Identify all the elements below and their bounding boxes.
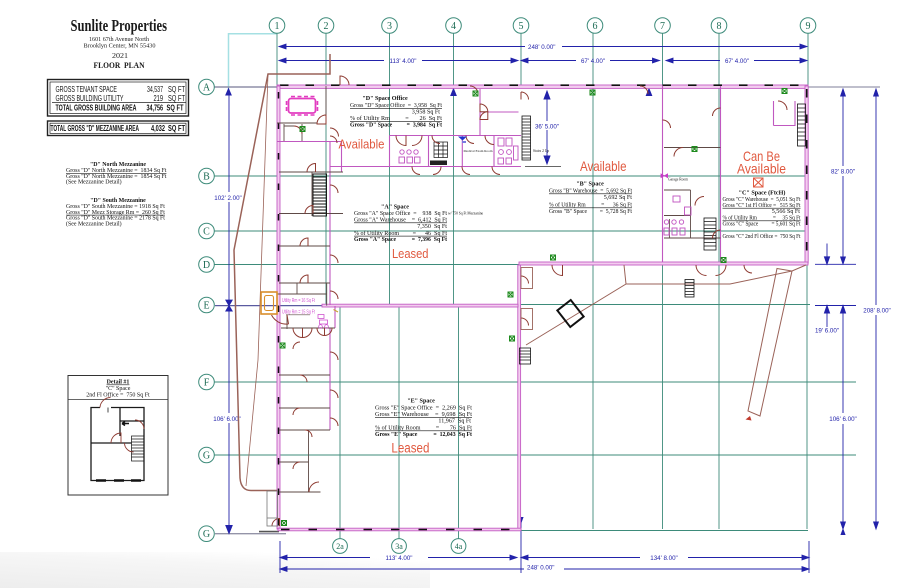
svg-text:2021: 2021: [112, 53, 128, 60]
svg-text:67' 4.00": 67' 4.00": [581, 58, 605, 65]
marker n3: [782, 89, 787, 94]
marker w2: [300, 127, 305, 132]
svg-text:F: F: [204, 377, 210, 388]
doors corridor west: [663, 120, 671, 128]
svg-text:(See Mezzanine Detail): (See Mezzanine Detail): [66, 220, 122, 227]
detail door arcs: [100, 398, 144, 453]
e-space partitions: [277, 283, 335, 492]
extension line col5 bottom: [520, 518, 522, 573]
vestibule room: [284, 124, 302, 141]
utility room bump: [261, 292, 277, 314]
yellow tick: [334, 310, 339, 313]
svg-text:G: G: [203, 529, 210, 540]
door b nw: [521, 92, 529, 100]
svg-text:5,566 Sq Ft: 5,566 Sq Ft: [772, 209, 801, 215]
dim 248 bottom: [280, 563, 809, 572]
column line 4: [453, 33, 455, 306]
detail black arrow: [122, 422, 129, 426]
svg-text:Utility Rm = 15 Sq Ft: Utility Rm = 15 Sq Ft: [282, 310, 315, 316]
svg-text:D: D: [203, 260, 210, 271]
svg-text:Stairs 2 Up: Stairs 2 Up: [533, 149, 549, 153]
svg-text:82' 8.00": 82' 8.00": [831, 169, 855, 176]
svg-text:Brooklyn Center, MN 55430: Brooklyn Center, MN 55430: [84, 43, 157, 50]
A space text: [354, 205, 484, 244]
office partition 283: [279, 282, 330, 284]
svg-text:Leased: Leased: [392, 247, 429, 261]
svg-text:2: 2: [324, 21, 329, 32]
witness arrow top-left: [225, 88, 232, 96]
west office inner doors: [330, 185, 338, 193]
svg-text:Gross "D" Space = 3,: Gross "D" Space = 3,984 Sq Ft: [350, 122, 442, 128]
svg-text:w/ 750 Sq Ft Mezzanine: w/ 750 Sq Ft Mezzanine: [448, 212, 484, 216]
svg-text:5: 5: [519, 21, 524, 32]
svg-text:"C" Space (FtcH): "C" Space (FtcH): [739, 190, 786, 197]
svg-text:Available: Available: [339, 137, 385, 152]
bubble 9: [800, 18, 816, 34]
svg-text:7: 7: [660, 21, 665, 32]
south wall north wing: [519, 262, 808, 265]
grid bubbles: [199, 18, 816, 554]
extension line col1 bottom: [279, 541, 281, 573]
column line 6: [592, 33, 594, 529]
column line 7: [662, 33, 664, 529]
restroom fixtures corridor: [664, 196, 691, 235]
conference room floor: [281, 89, 326, 124]
witness arrow wall col7: [646, 88, 653, 97]
svg-text:3,958 Sq Ft: 3,958 Sq Ft: [412, 109, 441, 115]
conference south wall: [277, 122, 326, 124]
row line G: [214, 454, 856, 456]
svg-text:8: 8: [717, 21, 722, 32]
svg-text:248' 0.00": 248' 0.00": [528, 44, 555, 51]
bubble G2: [199, 526, 215, 542]
svg-text:11,967 Sq Ft: 11,967 Sq Ft: [438, 419, 471, 425]
dark interior partitions: [277, 86, 721, 492]
svg-text:Leased: Leased: [391, 441, 429, 456]
svg-text:6: 6: [593, 21, 598, 32]
east wall: [805, 86, 808, 263]
corridor wall x330: [329, 142, 331, 306]
svg-text:106' 6.00": 106' 6.00": [213, 416, 240, 423]
column line 9: [807, 33, 809, 86]
restroom suite top wall: [390, 135, 522, 137]
dim 106-6 left: [208, 305, 246, 534]
conference east wall: [325, 86, 327, 123]
bubble B: [199, 168, 215, 184]
row line A: [214, 86, 277, 88]
svg-text:102' 2.00": 102' 2.00": [214, 195, 241, 202]
svg-text:SQ FT: SQ FT: [167, 104, 184, 113]
row line A right extension: [808, 86, 880, 88]
detail stairs: [132, 436, 145, 461]
svg-text:Utility Rm = 16 Sq Ft: Utility Rm = 16 Sq Ft: [282, 298, 315, 304]
stair shaft: [311, 172, 313, 216]
dim 248 top: [279, 44, 807, 51]
door vestibule: [294, 126, 302, 134]
bubble 7: [655, 18, 671, 34]
b-space stair: [522, 116, 531, 160]
bubble G: [199, 447, 215, 463]
door e east vestibule: [521, 276, 529, 284]
B space text: [549, 182, 632, 216]
door conference: [330, 128, 339, 137]
svg-text:Gross "C" Space = 5,6: Gross "C" Space = 5,601 Sq Ft: [723, 222, 801, 228]
svg-text:Gross "A" Warehouse = 6,41: Gross "A" Warehouse = 6,412 Sq Ft: [354, 218, 447, 224]
doors da wall: [412, 167, 420, 175]
d-space upper room: [480, 89, 519, 136]
d/a boundary wall: [330, 166, 521, 168]
c-space closet: [774, 101, 796, 126]
corridor room walls: [664, 148, 721, 239]
svg-text:"B" Space: "B" Space: [576, 182, 604, 188]
svg-text:34,537: 34,537: [147, 85, 163, 94]
svg-text:Gross "C" 1st Fl Office = 51: Gross "C" 1st Fl Office = 515 Sq Ft: [723, 202, 801, 209]
svg-text:B: B: [203, 171, 210, 182]
bubble E: [199, 297, 215, 313]
b/c corridor wall west: [662, 86, 664, 262]
svg-text:C: C: [203, 226, 210, 237]
dim 134-8 bottom: [524, 555, 809, 562]
bubble 1: [269, 18, 285, 34]
dim 67-4 a: [524, 58, 673, 65]
column line 3a: [398, 308, 400, 529]
west wall: [277, 86, 280, 529]
svg-text:Available: Available: [580, 158, 627, 174]
column line 5: [520, 33, 522, 88]
svg-text:SQ FT: SQ FT: [168, 124, 185, 133]
wall base mark: [259, 531, 279, 533]
marker s2: [721, 258, 726, 263]
svg-text:3a: 3a: [395, 542, 403, 551]
utility labels: [281, 297, 316, 316]
svg-text:113' 4.00": 113' 4.00": [389, 58, 416, 65]
row line D: [214, 264, 521, 266]
D space text: [350, 96, 442, 128]
restroom fixtures D: [399, 138, 518, 164]
e-space office walls: [330, 306, 335, 430]
svg-text:19' 6.00": 19' 6.00": [815, 328, 839, 335]
gross area table rule: [52, 102, 186, 104]
svg-text:Gross "E" Warehouse = 9,69: Gross "E" Warehouse = 9,698 Sq Ft: [375, 412, 472, 418]
marker corr: [692, 147, 697, 152]
svg-text:% of Utility Rm =: % of Utility Rm = 35 Sq Ft: [723, 215, 801, 222]
svg-text:GROSS TENANT SPACE: GROSS TENANT SPACE: [56, 85, 118, 94]
svg-text:2nd Fl Office = 750 Sq Ft: 2nd Fl Office = 750 Sq Ft: [86, 392, 150, 399]
svg-text:% of Utility Rm =: % of Utility Rm = 36 Sq Ft: [549, 202, 632, 209]
row line F: [214, 381, 856, 383]
conference table: [287, 97, 318, 116]
dim 67-4 b: [669, 58, 807, 65]
column line 8: [718, 33, 720, 529]
svg-text:Gross "B" Warehouse = 5,692: Gross "B" Warehouse = 5,692 Sq Ft: [549, 189, 632, 195]
svg-text:Gross "B" Space = 5,7: Gross "B" Space = 5,728 Sq Ft: [549, 209, 632, 215]
bubble C: [199, 223, 215, 239]
stub 2a: [339, 531, 341, 539]
doors corridor east: [713, 108, 721, 116]
door b ne: [640, 86, 648, 94]
extension line col9 bottom: [808, 541, 810, 573]
svg-text:Available: Available: [737, 161, 786, 177]
dim 106-6 right: [829, 306, 856, 530]
blue mini marks: [458, 137, 467, 144]
column line 3: [389, 33, 391, 306]
marker n2: [590, 90, 595, 95]
marker e2: [510, 336, 515, 341]
svg-text:9: 9: [806, 21, 811, 32]
svg-text:Gross "A" Space Office = 9: Gross "A" Space Office = 938 Sq Ft: [354, 210, 447, 217]
dim 82-8 right: [831, 89, 855, 264]
svg-text:208' 8.00": 208' 8.00": [863, 308, 890, 315]
planter island: [746, 269, 793, 421]
column line 1: [276, 33, 278, 86]
svg-text:Gross "E" Space Office = 2,2: Gross "E" Space Office = 2,269 Sq Ft: [375, 405, 472, 412]
svg-text:G: G: [203, 450, 210, 461]
detail plan outer walls: [91, 408, 144, 481]
cc marks: [318, 315, 328, 329]
corridor wall x341: [341, 142, 343, 173]
office partition 245: [279, 245, 330, 247]
svg-text:106' 6.00": 106' 6.00": [829, 416, 856, 423]
door sw corner: [272, 519, 280, 527]
dim 102-2 left: [209, 94, 247, 311]
marker n1: [473, 91, 478, 96]
svg-text:% of Utility Room =: % of Utility Room = 46 Sq Ft: [354, 230, 447, 237]
marker e1: [508, 292, 513, 297]
door north wall 1: [340, 76, 349, 85]
column line 2a: [339, 308, 341, 529]
detail separator: [68, 399, 168, 401]
svg-text:A: A: [203, 82, 211, 93]
witness arrow wall col4: [450, 88, 457, 97]
north wall: [277, 85, 808, 88]
d-space south strip wall: [277, 141, 342, 143]
detail window ticks: [96, 479, 141, 481]
e-space north wall: [322, 304, 518, 307]
svg-text:4a: 4a: [455, 542, 463, 551]
svg-text:% of Utility Room =: % of Utility Room = 76 Sq Ft: [375, 425, 472, 432]
svg-text:219: 219: [154, 94, 164, 103]
E space text: [375, 399, 472, 439]
svg-text:Gross "C" 2nd Fl Office = 750: Gross "C" 2nd Fl Office = 750 Sq Ft: [723, 233, 801, 240]
row line G2: [215, 533, 286, 535]
property line west: [234, 54, 330, 491]
svg-text:113' 4.00": 113' 4.00": [385, 555, 412, 562]
restroom stalls D: [390, 136, 495, 167]
column line 2: [325, 33, 327, 305]
bubble 2: [318, 18, 334, 34]
svg-text:34,756: 34,756: [147, 104, 164, 113]
svg-text:SQ FT: SQ FT: [168, 85, 185, 94]
doors e west: [293, 342, 300, 349]
doors south wall 2: [696, 265, 707, 276]
bubble 8: [711, 18, 727, 34]
counter bar: [430, 161, 447, 166]
bubble 4a: [451, 539, 466, 554]
svg-text:"A" Space: "A" Space: [381, 205, 409, 211]
door utility entry: [272, 315, 289, 324]
row line G2 right: [521, 530, 808, 532]
dim 113-4 bottom: [280, 555, 528, 562]
dim 208-8 right: [858, 89, 894, 529]
svg-text:Gross "C" Warehouse = 5,051: Gross "C" Warehouse = 5,051 Sq Ft: [723, 197, 801, 203]
column line 4a: [458, 308, 460, 529]
e-space east wall: [518, 265, 521, 529]
marker s1: [551, 255, 556, 260]
svg-text:4,032: 4,032: [151, 124, 165, 133]
shower hatch: [434, 142, 448, 158]
bubble 6: [587, 18, 603, 34]
svg-text:36' 5.00": 36' 5.00": [535, 124, 559, 131]
svg-text:FLOOR PLAN: FLOOR PLAN: [94, 60, 146, 70]
svg-text:Detail #1: Detail #1: [107, 380, 130, 386]
stub 4a: [458, 531, 460, 539]
detail interior marks: [107, 408, 109, 413]
exterior stair e-wall: [520, 348, 531, 364]
doors d strip: [330, 136, 337, 143]
svg-text:1: 1: [275, 21, 280, 32]
svg-text:Medical Exam Room: Medical Exam Room: [463, 149, 492, 153]
mezzanine total box: [48, 121, 189, 136]
svg-text:TOTAL GROSS "D" MEZZANINE AREA: TOTAL GROSS "D" MEZZANINE AREA: [51, 124, 140, 133]
wall marker bowtie: [661, 173, 668, 178]
south wall: [278, 528, 521, 531]
door c closet: [778, 101, 787, 110]
vestibule rooms east of e-space: [521, 268, 533, 330]
exterior stair se: [685, 280, 694, 298]
C space text: [723, 190, 801, 240]
office partition 213: [279, 213, 343, 215]
dim 19-6 right: [815, 244, 856, 335]
svg-text:Garage Room: Garage Room: [668, 178, 688, 182]
bubble 5: [513, 18, 529, 34]
dumpster pad: [557, 300, 583, 327]
bubble D: [199, 257, 215, 273]
svg-text:4: 4: [451, 21, 456, 32]
row line C: [214, 230, 806, 232]
bubble 4: [446, 18, 462, 34]
door north wall 2: [470, 86, 478, 94]
corridor stair: [704, 218, 716, 250]
c-space stair: [798, 104, 806, 146]
witness arrow e-space corner: [518, 517, 523, 524]
cyan reference leader: [229, 34, 278, 94]
bubble A: [199, 79, 215, 95]
svg-text:Gross "A" Space = 7: Gross "A" Space = 7,396 Sq Ft: [354, 237, 447, 243]
door south wall 3: [744, 265, 752, 273]
svg-text:134' 8.00": 134' 8.00": [650, 555, 677, 562]
svg-text:% of Utility Rm =: % of Utility Rm = 26 Sq Ft: [350, 115, 442, 122]
gross area table outer box: [48, 80, 189, 117]
dim 36-5: [525, 91, 561, 166]
svg-text:5,692 Sq Ft: 5,692 Sq Ft: [604, 195, 633, 201]
bubble F: [199, 374, 215, 390]
svg-text:GROSS BUILDING UTILITY: GROSS BUILDING UTILITY: [56, 94, 125, 103]
door conference se: [317, 115, 326, 124]
svg-text:67' 4.00": 67' 4.00": [725, 58, 749, 65]
page shadow bottom-left: [0, 552, 430, 588]
svg-text:7,350 Sq Ft: 7,350 Sq Ft: [417, 224, 447, 230]
svg-text:SQ FT: SQ FT: [168, 94, 185, 103]
svg-text:E: E: [203, 300, 209, 311]
bubble 3a: [392, 539, 407, 554]
doors west offices: [307, 164, 316, 173]
svg-text:(See Mezzanine Detail): (See Mezzanine Detail): [66, 179, 122, 186]
stairwell main: [313, 174, 327, 216]
office partition 172: [279, 171, 343, 173]
bubble 2a: [333, 539, 348, 554]
column line 9 lower: [806, 263, 808, 529]
svg-text:"C" Space: "C" Space: [106, 386, 131, 392]
svg-text:Gross "E" Space = 1: Gross "E" Space = 12,043 Sq Ft: [375, 432, 472, 438]
b/c corridor wall east: [720, 86, 722, 262]
svg-text:TOTAL GROSS BUILDING AREA: TOTAL GROSS BUILDING AREA: [56, 104, 137, 113]
svg-text:"D" Space Office: "D" Space Office: [362, 96, 408, 102]
svg-text:248' 0.00": 248' 0.00": [527, 565, 554, 572]
svg-text:Sunlite Properties: Sunlite Properties: [71, 16, 168, 35]
dim 113-4 top: [279, 58, 528, 65]
sw exterior room: [267, 491, 278, 526]
row line B: [214, 175, 806, 177]
svg-text:"E" Space: "E" Space: [407, 399, 435, 405]
row line E: [215, 305, 323, 307]
row line E right: [518, 304, 810, 306]
sidewalk southeast: [526, 265, 806, 345]
detail box frame: [68, 376, 168, 496]
svg-text:Gross "D" Space Office = 3,9: Gross "D" Space Office = 3,958 Sq Ft: [350, 102, 442, 109]
red crossed box: [754, 178, 764, 187]
marker w1: [280, 343, 285, 348]
doors e offices: [330, 352, 338, 360]
doors south wall 1: [552, 265, 563, 276]
doors e entry double: [293, 328, 303, 338]
witness arrows right base: [840, 528, 845, 535]
svg-text:3: 3: [387, 21, 392, 32]
stub 3a: [398, 531, 400, 539]
bubble 3: [382, 18, 398, 34]
svg-text:2a: 2a: [336, 542, 344, 551]
marker sw: [282, 521, 287, 526]
